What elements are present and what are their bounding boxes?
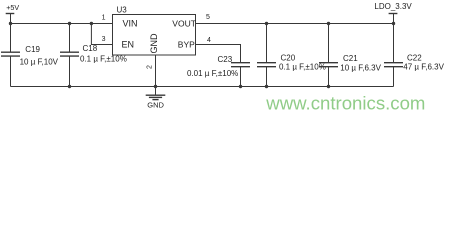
node C22/LDO top junction [392, 22, 395, 25]
power LDO_3.3V [374, 2, 412, 23]
wire +5V rail to VIN pin1 [11, 23, 113, 25]
node C21 top junction [327, 22, 330, 25]
capacitor C20 [257, 24, 326, 87]
svg-text:LDO_3.3V: LDO_3.3V [374, 2, 412, 11]
svg-text:0.1 µ F,±10%: 0.1 µ F,±10% [279, 63, 326, 72]
svg-text:C21: C21 [343, 54, 358, 63]
capacitor C19 [1, 24, 59, 87]
ground [146, 87, 166, 110]
svg-text:0.1 µ F,±10%: 0.1 µ F,±10% [80, 54, 127, 63]
capacitor C22 [384, 24, 445, 87]
svg-text:C20: C20 [281, 54, 296, 63]
svg-text:VOUT: VOUT [172, 18, 196, 28]
node C20 bottom junction [265, 85, 268, 88]
svg-text:5: 5 [206, 14, 210, 21]
svg-text:C19: C19 [25, 45, 40, 54]
svg-text:GND: GND [147, 101, 164, 110]
svg-text:10 µ F,6.3V: 10 µ F,6.3V [340, 63, 381, 72]
svg-text:C18: C18 [83, 44, 98, 53]
svg-text:GND: GND [149, 33, 159, 54]
capacitor C21 [319, 24, 382, 87]
node C18 top junction [68, 22, 71, 25]
svg-text:C23: C23 [218, 55, 233, 64]
svg-text:4: 4 [207, 37, 211, 44]
svg-text:47 µ F,6.3V: 47 µ F,6.3V [403, 63, 444, 72]
power +5V [6, 3, 20, 24]
svg-text:+5V: +5V [6, 3, 19, 12]
node C18 bottom junction [68, 85, 71, 88]
wire BYP pin4 to C23 [196, 45, 241, 63]
wire bottom ground rail [11, 86, 394, 88]
svg-text:2: 2 [146, 65, 153, 69]
svg-text:1: 1 [102, 15, 106, 22]
IC U3 voltage regulator [113, 5, 196, 55]
svg-text:U3: U3 [117, 5, 128, 14]
svg-text:EN: EN [122, 40, 135, 50]
wire EN tap (rail down to pin 3) [91, 24, 112, 45]
svg-text:10 µ F,10V: 10 µ F,10V [20, 57, 59, 66]
wire VOUT pin5 rail [196, 23, 394, 25]
node GND pin2 bottom junction [154, 85, 157, 88]
svg-text:www.cntronics.com: www.cntronics.com [265, 93, 425, 114]
node EN tap junction [90, 22, 93, 25]
svg-text:BYP: BYP [178, 40, 195, 50]
svg-text:3: 3 [102, 36, 106, 43]
node C21 bottom junction [327, 85, 330, 88]
svg-text:VIN: VIN [123, 19, 138, 29]
node +5V/C19 junction [9, 22, 12, 25]
svg-text:0.01 µ F,±10%: 0.01 µ F,±10% [187, 69, 238, 78]
capacitor C23 [187, 55, 250, 87]
capacitor C18 [60, 24, 127, 87]
node C23 bottom junction [239, 85, 242, 88]
wire GND pin2 [155, 55, 157, 87]
node C20 top junction [265, 22, 268, 25]
svg-text:C22: C22 [407, 54, 422, 63]
